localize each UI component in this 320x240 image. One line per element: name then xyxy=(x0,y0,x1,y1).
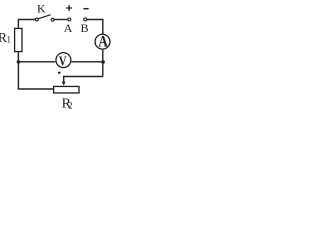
wire switch right contact to terminal A xyxy=(54,19,67,21)
svg-text:K: K xyxy=(37,2,46,16)
wire left rail R1 bottom to bottom-left corner xyxy=(18,52,53,90)
rheostat R2 box xyxy=(54,86,79,93)
label + xyxy=(66,5,72,11)
small mark below voltmeter xyxy=(58,72,61,74)
terminal B xyxy=(84,18,87,21)
junction dot right (node) xyxy=(101,60,105,64)
svg-text:V: V xyxy=(59,54,67,69)
svg-text:A: A xyxy=(64,21,73,35)
label minus xyxy=(84,8,89,10)
ammeter A xyxy=(95,34,110,49)
wire voltmeter left to left rail xyxy=(18,61,55,63)
wire terminal B to top-right corner down to ammeter xyxy=(87,20,103,35)
voltmeter V xyxy=(56,53,71,68)
resistor R1 box xyxy=(15,28,22,51)
junction dot left (node) xyxy=(17,60,20,63)
wire voltmeter right to right rail xyxy=(71,61,102,63)
svg-text:B: B xyxy=(81,21,89,35)
svg-text:A: A xyxy=(98,34,108,51)
terminal A xyxy=(68,18,71,21)
switch K left contact xyxy=(35,18,38,21)
switch K right contact xyxy=(51,18,54,21)
switch K lever xyxy=(39,15,51,19)
rheostat slider arrow xyxy=(62,82,66,86)
wire top-left corner from R1 top to switch xyxy=(18,20,35,29)
svg-text:R2: R2 xyxy=(62,97,73,112)
wire slider horizontal to arrow xyxy=(64,77,103,82)
wire ammeter bottom to slider corner xyxy=(102,50,104,77)
